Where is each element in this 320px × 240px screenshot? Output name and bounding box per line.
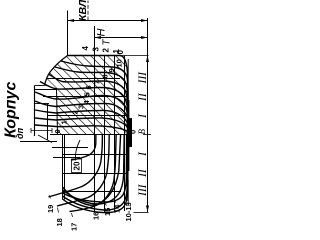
beam dim arrow port (146, 206, 149, 213)
svg-text:6: 6 (84, 85, 93, 89)
dimension line H (68, 20, 148, 22)
bulwark end drop (35, 85, 45, 87)
station 10-13 curve (63, 135, 129, 213)
starboard extension line (122, 55, 149, 57)
svg-text:3: 3 (92, 47, 101, 52)
station 10 curve (68, 56, 128, 101)
station 20 curve (71, 135, 96, 160)
svg-text:1: 1 (60, 120, 69, 124)
station 16 curve (63, 135, 121, 205)
diagonal (61, 43, 157, 139)
deck edge line fore (57, 90, 58, 135)
stern counter line 1 (53, 157, 80, 159)
station 8 curve (55, 67, 128, 106)
label leader tick (126, 199, 128, 201)
station 7 curve (49, 74, 128, 109)
svg-text:19: 19 (46, 205, 55, 213)
diagonal (0, 43, 66, 139)
label leader tick (58, 208, 59, 213)
svg-text:10: 10 (115, 59, 124, 67)
diagonal (0, 43, 83, 139)
diagonal (53, 43, 149, 139)
forecastle deck (47, 104, 49, 140)
stem profile line (20, 141, 57, 143)
diagonal (36, 43, 132, 139)
keel bar near centerline (128, 118, 132, 147)
port extension line (134, 212, 149, 214)
keel flat thick band (127, 100, 130, 171)
svg-text:II: II (137, 168, 149, 178)
svg-text:T: T (102, 39, 113, 46)
diagonal (78, 43, 174, 139)
svg-text:H: H (96, 29, 108, 37)
svg-text:15: 15 (103, 208, 112, 216)
station 6 curve (40, 82, 128, 113)
waterline y=104.5 (104, 56, 106, 214)
svg-text:II: II (137, 92, 149, 102)
station 1 curve (35, 125, 128, 133)
buttock starboard II (43, 96, 126, 98)
svg-text:В: В (137, 129, 147, 135)
svg-text:0: 0 (116, 50, 125, 55)
station 14 curve (63, 135, 127, 202)
baseline port (127, 180, 129, 206)
station 2 curve (35, 118, 128, 130)
svg-text:7: 7 (93, 80, 102, 84)
svg-text:5: 5 (83, 92, 92, 96)
svg-text:III: III (137, 71, 149, 85)
stem slant lower (38, 135, 52, 143)
stern counter top curve (75, 140, 80, 161)
station 5 curve (35, 92, 128, 117)
base reference line (147, 18, 149, 212)
aft deck line 1 (62, 135, 64, 200)
diagonal (28, 43, 124, 139)
svg-text:14: 14 (113, 204, 122, 213)
forecastle break step 2 (35, 89, 56, 91)
buttock port II (62, 173, 126, 175)
dimension line T (95, 37, 148, 39)
station 15 curve (63, 135, 125, 204)
svg-text:10-13: 10-13 (124, 202, 133, 221)
svg-text:17: 17 (70, 223, 79, 231)
svg-text:4: 4 (81, 46, 90, 51)
buttock starboard I (48, 115, 128, 117)
diagonal (95, 43, 191, 139)
diagonal (70, 43, 166, 139)
svg-text:2: 2 (102, 48, 111, 53)
label leader tick (93, 205, 95, 208)
station 18 curve (57, 135, 109, 206)
bulwark top line (34, 86, 36, 137)
station 13 curve (63, 135, 128, 210)
svg-text:КВЛ: КВЛ (77, 0, 89, 21)
diagonal (86, 43, 182, 139)
KVL underline dashed (87, 1, 89, 21)
label leader tick (114, 201, 116, 203)
beam dim arrow starboard (146, 56, 149, 63)
diagonal (45, 43, 141, 139)
diagonal (20, 43, 116, 139)
svg-text:9: 9 (107, 68, 116, 72)
station 17 curve (70, 135, 117, 212)
waterline y=124.5 (124, 56, 126, 212)
KVL extension (94, 26, 96, 56)
stern counter line 2 (52, 147, 88, 149)
staff line with end ticks (31, 130, 52, 132)
station 19 curve (49, 135, 103, 197)
label leader tick (49, 195, 51, 199)
waterline y=94.5 (94, 56, 96, 214)
svg-text:18: 18 (55, 218, 64, 226)
centerline tick on ref line (143, 134, 151, 136)
label leader tick (105, 204, 107, 206)
aft deck line 2 (64, 135, 66, 200)
svg-text:16: 16 (92, 212, 101, 220)
svg-text:0: 0 (53, 129, 62, 133)
diagonal (0, 43, 91, 139)
baseline starboard (127, 59, 129, 100)
station 3 curve (35, 110, 128, 126)
buttock port III (62, 191, 121, 193)
buttock port I (62, 154, 128, 156)
svg-text:Корпус: Корпус (3, 82, 20, 138)
svg-text:2: 2 (71, 110, 80, 114)
centerline DP (50, 134, 130, 136)
buttock starboard III (47, 78, 121, 80)
diagonal (0, 43, 74, 139)
deck line extension (67, 11, 69, 56)
svg-text:III: III (137, 183, 149, 197)
svg-text:8: 8 (101, 74, 110, 78)
station 9 curve (61, 61, 128, 103)
diagonal (3, 43, 99, 139)
station 4 curve (35, 101, 128, 121)
waterline y=114.5 (114, 56, 116, 213)
svg-text:20: 20 (73, 161, 82, 170)
diagonal (12, 43, 108, 139)
diagonal (103, 43, 199, 139)
label leader tick (72, 213, 73, 217)
frame around label 20 (72, 159, 82, 173)
forecastle break step 1 (35, 103, 50, 105)
